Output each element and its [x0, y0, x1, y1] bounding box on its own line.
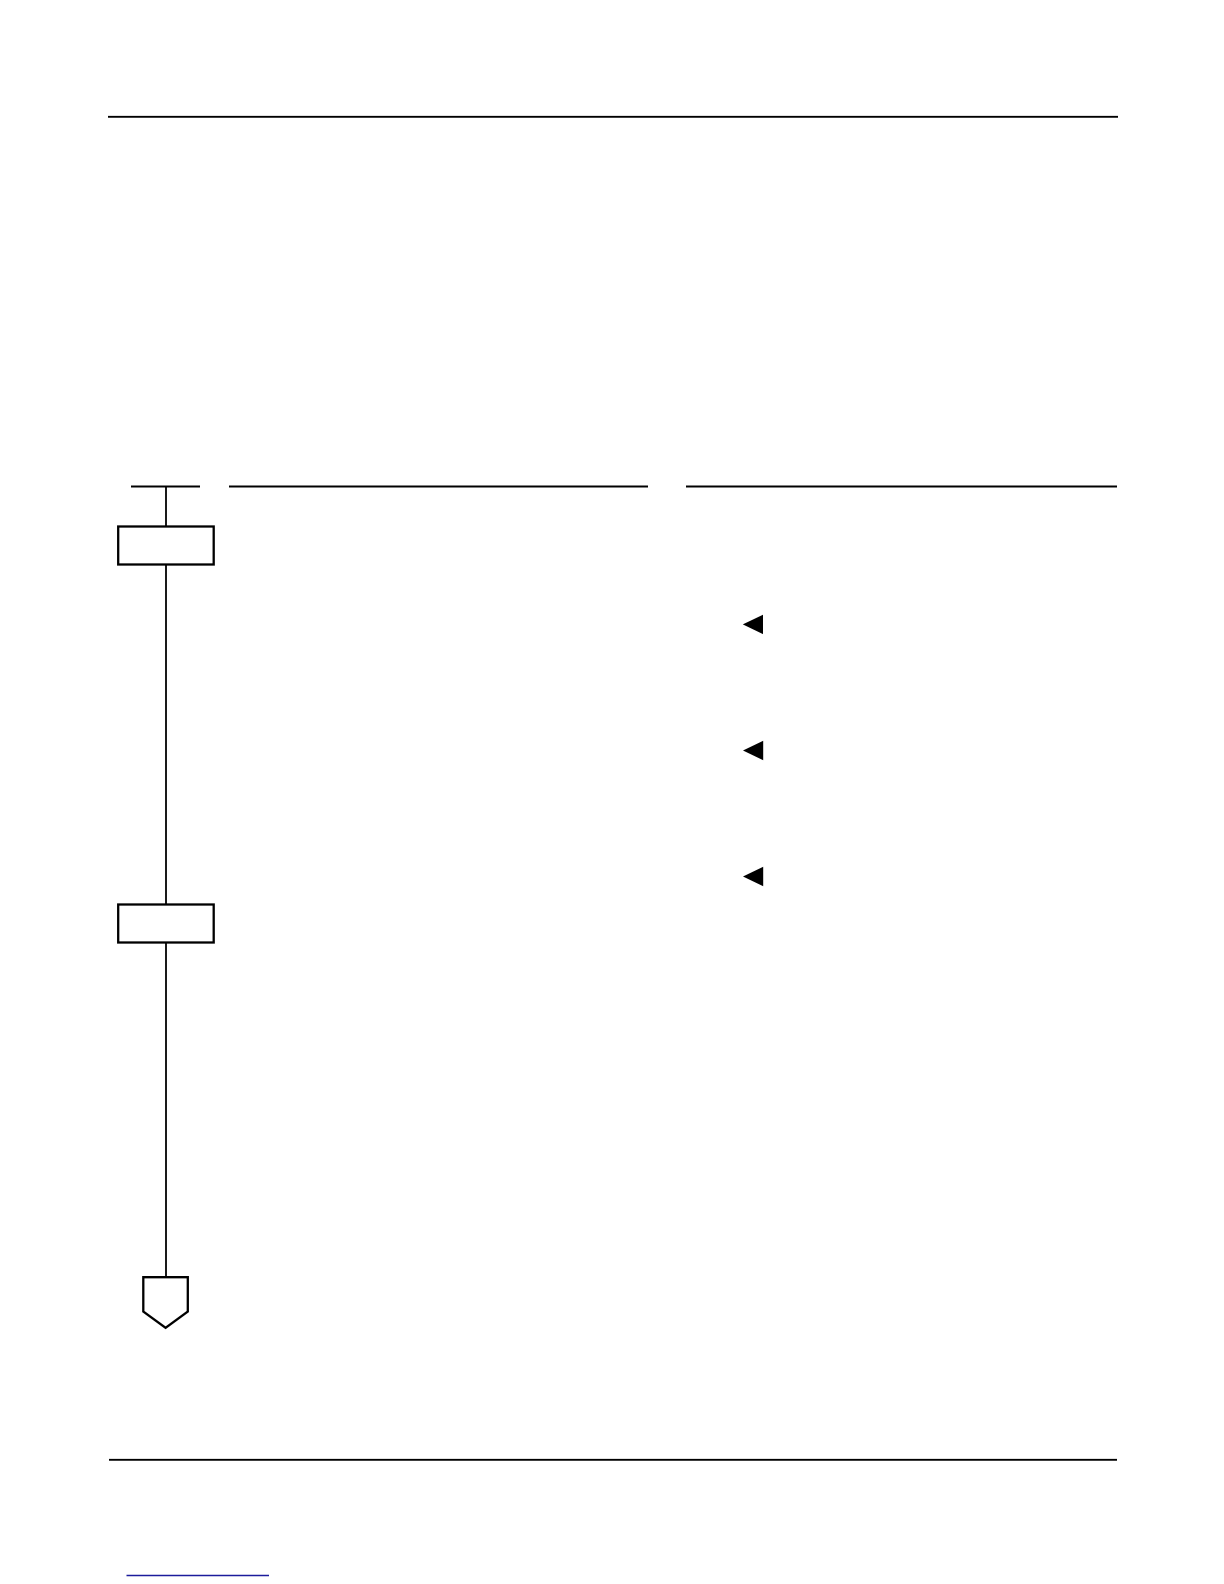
- header rule: [108, 116, 1118, 118]
- change-bar triangle 1: [743, 615, 763, 634]
- wire from start tick to process box 1: [165, 487, 167, 527]
- hyperlink underline: [127, 1575, 270, 1577]
- change-bar triangle 3: [743, 867, 763, 886]
- off-page connector (pentagon): [143, 1277, 188, 1328]
- change-bar triangle 2: [743, 741, 763, 760]
- column rule left: [229, 486, 648, 488]
- column rule right: [686, 486, 1117, 488]
- footer rule: [109, 1459, 1117, 1461]
- start tick (flow column header): [131, 486, 200, 488]
- process box 2: [118, 905, 214, 943]
- wire from process box 1 to process box 2: [165, 566, 167, 905]
- wire from process box 2 to off-page connector: [165, 944, 167, 1278]
- process box 1: [118, 527, 214, 565]
